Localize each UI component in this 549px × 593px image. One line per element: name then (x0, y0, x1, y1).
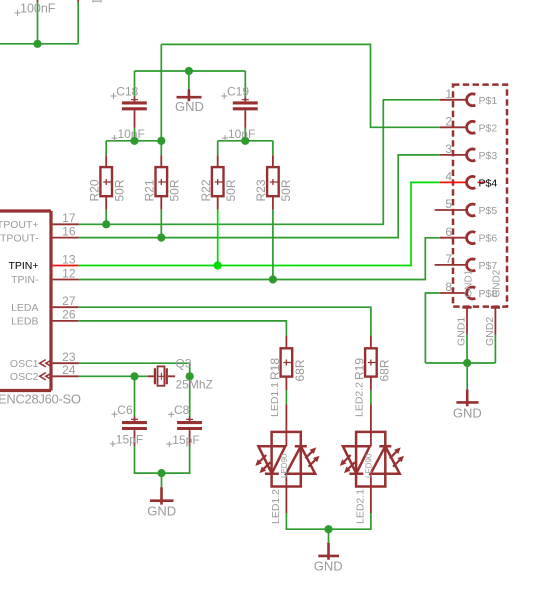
wire net RX center-tap rail (218, 128, 273, 155)
svg-text:C18: C18 (116, 85, 138, 99)
value label 15pF (C6) (110, 433, 143, 447)
value label 15pF (C8) (166, 433, 199, 447)
capacitor C18 (122, 96, 147, 128)
svg-text:P$3: P$3 (479, 150, 498, 162)
pin GND2 (connector bottom) (491, 269, 503, 334)
node junction 100nF rail (33, 40, 41, 48)
resistor R22 (212, 155, 224, 210)
value label 10nF (C18) (112, 127, 145, 141)
wire net crystal ground rail (135, 446, 190, 487)
capacitor C19 (233, 96, 258, 128)
ground GND (under crystal caps) (147, 487, 176, 518)
svg-text:7: 7 (445, 252, 452, 266)
svg-text:13: 13 (62, 252, 76, 266)
wire net LEDA (pin 27 to R19) (78, 307, 371, 336)
svg-text:R18: R18 (268, 358, 282, 380)
svg-text:100nF: 100nF (20, 2, 56, 16)
node junction crystal gnd tap (157, 469, 165, 477)
svg-text:TPIN-: TPIN- (11, 274, 39, 286)
svg-text:C19: C19 (227, 85, 249, 99)
wire net 100nF (top-left cap rail) (0, 2, 78, 44)
pin 24 OSC2 (clock chevrons) (10, 363, 79, 383)
capacitor C8 (177, 416, 202, 446)
svg-text:LED1.1: LED1.1 (269, 382, 281, 417)
svg-text:50R: 50R (224, 179, 238, 201)
pin GND1 (connector bottom) (462, 269, 474, 334)
wire net LED1.1 link (285, 390, 287, 404)
op-amp U1 IC ENC28J60 body (0, 211, 51, 391)
svg-text:LED1.2: LED1.2 (270, 489, 282, 524)
svg-text:R23: R23 (254, 179, 268, 201)
stray cut-off text at top edge (93, 0, 101, 3)
svg-text:LEDB: LEDB (11, 316, 38, 328)
pin 23 OSC1 (clock chevrons) (10, 350, 79, 370)
node junction GND tap (185, 67, 193, 75)
wire net connector ground (425, 293, 495, 390)
pin P$1 (440, 87, 498, 107)
svg-text:16: 16 (62, 224, 76, 238)
pin 26 LEDB (11, 308, 78, 328)
node junction LED gnd tap (324, 525, 332, 533)
svg-text:LEDA: LEDA (11, 302, 38, 314)
svg-text:25MhZ: 25MhZ (176, 378, 213, 392)
pin 12 TPIN- (11, 266, 78, 286)
svg-text:TPOUT+: TPOUT+ (0, 219, 39, 231)
svg-text:OSC1: OSC1 (10, 358, 39, 370)
wire net OSC1 (pin 23 to crystal right / C8) (79, 363, 190, 417)
wire net TPIN+ highlighted (pin 13 to P$4) (79, 182, 441, 265)
svg-text:TPOUT-: TPOUT- (0, 232, 39, 244)
pin 17 TPOUT+ (0, 211, 79, 231)
svg-text:GND: GND (314, 558, 343, 573)
pin P$2 (440, 115, 498, 135)
pin 13 TPIN+ (highlighted) (8, 252, 78, 272)
pin P$8 (440, 280, 498, 300)
svg-text:50R: 50R (113, 179, 127, 201)
ground GND (mid, under C18/C19 rail) (175, 90, 204, 114)
svg-text:GND2: GND2 (484, 317, 496, 346)
node junction OSC2 / Q3 / C6 (130, 372, 138, 380)
name label C18 (111, 85, 139, 99)
node junction C19 bottom (241, 137, 249, 145)
value label 100nF (15, 2, 56, 16)
svg-text:15pF: 15pF (116, 433, 143, 447)
svg-text:2: 2 (445, 115, 452, 129)
wire net TPIN- (pin 12 to P$6) (79, 210, 440, 280)
resistor R18 (281, 336, 293, 391)
svg-text:68R: 68R (293, 359, 307, 381)
svg-text:R21: R21 (142, 179, 156, 201)
resistor R21 (156, 155, 168, 210)
node junction TPOUT- / R21 (157, 234, 165, 242)
svg-text:68R: 68R (378, 359, 392, 381)
svg-text:27: 27 (62, 294, 76, 308)
ground GND (connector) (453, 390, 482, 421)
node junction R21 top (157, 137, 165, 145)
svg-text:R22: R22 (199, 179, 213, 201)
node junction TPOUT+ / R20 (102, 220, 110, 228)
capacitor C17 pin remnants (cut off at top) (38, 0, 79, 2)
wire net TPOUT- (pin 16 to P$3) (79, 155, 440, 238)
svg-text:OSC2: OSC2 (10, 371, 39, 383)
node junction connector gnd (463, 359, 471, 367)
wire net LED2.2 link (370, 390, 372, 404)
capacitor C6 (122, 416, 147, 446)
svg-text:P$2: P$2 (479, 122, 498, 134)
name label C19 (221, 85, 249, 99)
svg-text:P$4: P$4 (479, 177, 498, 189)
svg-text:C8: C8 (174, 403, 190, 417)
svg-text:6: 6 (445, 225, 452, 239)
name label C8 (168, 403, 189, 417)
name label C6 (112, 403, 133, 417)
svg-text:50R: 50R (279, 179, 293, 201)
svg-text:TPIN+: TPIN+ (8, 260, 38, 272)
svg-text:8: 8 (445, 280, 452, 294)
svg-text:LED2.2: LED2.2 (353, 382, 365, 417)
pin P$7 (long stub, n.c.) (435, 252, 498, 272)
value label 10nF (C19) (222, 127, 255, 141)
pin 27 LEDA (11, 294, 78, 314)
svg-text:GND2: GND2 (492, 269, 503, 297)
svg-text:GND1: GND1 (455, 317, 467, 346)
pin P$3 (440, 142, 498, 162)
svg-text:12: 12 (62, 266, 76, 280)
svg-text:26: 26 (62, 308, 76, 322)
wire net TPOUT+ (pin 17 to P$1) (79, 100, 440, 225)
LED LED1 (bidirectional) (255, 405, 319, 514)
crystal Q3 (148, 366, 175, 385)
svg-text:15pF: 15pF (172, 433, 199, 447)
svg-text:GND: GND (453, 405, 482, 420)
wire net GND mid (C18/C19 tops) (135, 71, 246, 98)
svg-text:GND: GND (175, 99, 204, 114)
pin P$6 (440, 225, 498, 245)
pin P$4 (highlighted) (440, 170, 497, 190)
svg-text:LED90: LED90 (280, 453, 289, 478)
svg-text:Q3: Q3 (176, 356, 192, 370)
wire net center-tap TX (rail to P$2) (106, 44, 440, 155)
node junction TPIN+ / R22 (highlighted) (214, 261, 222, 269)
pin 16 TPOUT- (0, 224, 79, 244)
svg-text:10nF: 10nF (228, 127, 255, 141)
svg-text:GND1: GND1 (463, 269, 474, 297)
node junction TPIN- / R23 (269, 275, 277, 283)
resistor R23 (267, 155, 279, 210)
ground GND (under LEDs) (314, 543, 343, 574)
svg-text:LED90: LED90 (365, 453, 374, 478)
resistor R20 (100, 155, 112, 210)
svg-text:ENC28J60-SO: ENC28J60-SO (0, 392, 81, 407)
svg-text:R20: R20 (87, 179, 101, 201)
svg-text:R19: R19 (352, 358, 366, 380)
svg-text:50R: 50R (168, 179, 182, 201)
svg-text:LED2.1: LED2.1 (355, 489, 367, 524)
svg-text:GND: GND (147, 503, 176, 518)
node junction C18 bottom (130, 137, 138, 145)
svg-text:5: 5 (445, 197, 452, 211)
wire net LEDB (pin 26 to R18) (78, 321, 286, 336)
svg-text:C6: C6 (117, 403, 133, 417)
svg-text:10nF: 10nF (118, 127, 145, 141)
svg-text:1: 1 (445, 87, 452, 101)
svg-text:4: 4 (445, 170, 452, 184)
wire net OSC2 (pin 24 to crystal left / C6) (79, 376, 148, 417)
svg-text:3: 3 (445, 142, 452, 156)
svg-text:P$6: P$6 (479, 233, 498, 245)
svg-text:23: 23 (62, 350, 76, 364)
svg-text:P$1: P$1 (479, 95, 498, 107)
LED LED2 (bidirectional) (340, 405, 404, 514)
resistor R19 (365, 336, 377, 391)
svg-text:P$5: P$5 (479, 205, 498, 217)
node junction OSC1 / Q3 / C8 (186, 372, 194, 380)
connector SV1 dashed box (453, 85, 507, 307)
wire net LED ground rail (286, 513, 371, 543)
svg-text:17: 17 (62, 211, 76, 225)
pin P$5 (long stub, n.c.) (435, 197, 498, 217)
svg-text:24: 24 (62, 363, 76, 377)
